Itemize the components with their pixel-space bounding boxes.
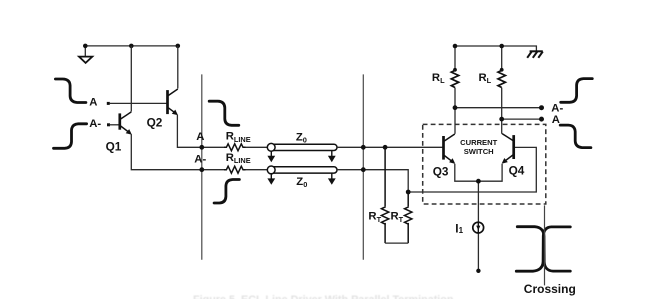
transistor Q2 bbox=[168, 89, 179, 115]
dashed box current switch bbox=[423, 124, 546, 204]
resistor RLINE2 bbox=[224, 166, 246, 173]
node A- on line 1 bbox=[199, 167, 204, 172]
squiggle output upper bbox=[561, 79, 593, 103]
arrow below Z0 lower right bbox=[328, 173, 336, 185]
wire input A- to Q1 base bbox=[109, 124, 119, 126]
resistor RLINE1 bbox=[224, 144, 246, 151]
svg-text:Q4: Q4 bbox=[509, 164, 525, 178]
node A on line 1 bbox=[199, 145, 204, 150]
chassis ground right bbox=[527, 51, 543, 58]
node bottom terminal of I1 bbox=[476, 269, 480, 273]
wire Q1 collector vertical bbox=[130, 46, 132, 112]
wire Q3 emitter to common bbox=[455, 164, 479, 181]
wire output A- row bbox=[455, 107, 542, 109]
wire RL1 top vertical bbox=[454, 46, 456, 70]
wire Q2 collector vertical bbox=[177, 46, 179, 89]
wire RLINE1 to Z0 line 1 bbox=[246, 146, 268, 148]
svg-text:Crossing: Crossing bbox=[524, 282, 576, 296]
node top-rail junction 2 bbox=[129, 44, 134, 49]
svg-text:A-: A- bbox=[551, 103, 563, 115]
svg-text:RL: RL bbox=[479, 72, 492, 85]
svg-text:RLINE: RLINE bbox=[226, 152, 251, 165]
node input A- terminal bbox=[107, 123, 110, 126]
wire RLINE2 to Z0 line 2 bbox=[246, 169, 268, 171]
resistor RT2 bbox=[405, 192, 412, 243]
wire Z0 upper output to Q3 base bbox=[337, 146, 443, 148]
node top-right rail junction 1 bbox=[453, 44, 458, 49]
wire RL2 bottom to Q4 collector bbox=[501, 88, 503, 134]
resistor RL2 bbox=[498, 70, 505, 87]
wire current source to bottom terminal bbox=[477, 233, 479, 271]
current source I1 bbox=[473, 222, 484, 233]
node RL2 top bbox=[500, 68, 504, 72]
wire top-right rail bbox=[455, 46, 536, 51]
wire Q2 emitter down and right (A signal) bbox=[177, 115, 224, 148]
node line2 crossing wire1 bbox=[361, 145, 366, 150]
node output A- tap bbox=[453, 105, 458, 110]
wire Q1 emitter down and right (A- signal) bbox=[131, 134, 224, 170]
wire top-left rail bbox=[85, 45, 178, 47]
squiggle output lower bbox=[560, 125, 591, 148]
node RT1 tap bbox=[383, 145, 388, 150]
svg-text:A: A bbox=[552, 114, 560, 126]
crossing waveform bbox=[516, 227, 570, 272]
wire RL1 bottom to Q3 collector bbox=[454, 88, 456, 134]
wire crossing vertical marker bbox=[544, 205, 546, 285]
svg-text:I1: I1 bbox=[455, 221, 463, 235]
node output A end bbox=[539, 117, 544, 122]
node output A tap bbox=[499, 117, 504, 122]
svg-text:RT: RT bbox=[368, 211, 381, 224]
svg-text:RLINE: RLINE bbox=[226, 131, 251, 144]
arrow below Z0 lower left bbox=[267, 173, 275, 185]
svg-text:Q1: Q1 bbox=[106, 139, 122, 153]
svg-text:Q3: Q3 bbox=[433, 165, 449, 179]
node RT2 tap bbox=[406, 190, 411, 195]
arrow below Z0 upper left bbox=[267, 151, 275, 163]
wire Q4 emitter to common bbox=[478, 164, 502, 181]
node output A- end bbox=[539, 105, 544, 110]
wire RT bottom bus bbox=[385, 242, 408, 244]
svg-text:RL: RL bbox=[432, 72, 445, 85]
transmission line Z0 upper bbox=[267, 143, 337, 151]
svg-text:SWITCH: SWITCH bbox=[464, 147, 494, 156]
svg-text:Z0: Z0 bbox=[296, 176, 307, 189]
svg-text:Q2: Q2 bbox=[147, 116, 163, 130]
squiggle above RLINE bbox=[209, 101, 239, 125]
wire output A row bbox=[502, 118, 542, 120]
wire input A to Q2 base bbox=[109, 102, 167, 104]
transistor Q4 bbox=[502, 134, 514, 164]
resistor RL1 bbox=[451, 70, 458, 87]
squiggle input A bbox=[55, 79, 86, 103]
transistor Q1 bbox=[120, 112, 132, 135]
svg-text:A: A bbox=[89, 97, 97, 109]
node line2 crossing wire2 bbox=[361, 167, 366, 172]
wire long vertical line 2 bbox=[362, 74, 364, 259]
wire common emitter down to current source bbox=[477, 181, 479, 222]
node top-rail junction 1 bbox=[83, 44, 88, 49]
ground bbox=[79, 46, 92, 63]
transmission line Z0 lower bbox=[267, 166, 337, 174]
svg-text:CURRENT: CURRENT bbox=[460, 138, 497, 147]
node common emitter bbox=[476, 179, 481, 184]
arrow below Z0 upper right bbox=[328, 151, 336, 163]
svg-text:A: A bbox=[196, 131, 204, 143]
wire Z0 lower output down and around to Q4 base bbox=[337, 147, 536, 192]
squiggle input A- bbox=[54, 124, 87, 149]
node input A terminal bbox=[107, 102, 110, 105]
wire RL2 top vertical bbox=[501, 46, 503, 70]
svg-text:A-: A- bbox=[194, 154, 206, 166]
transistor Q3 bbox=[444, 134, 456, 164]
svg-text:A-: A- bbox=[89, 118, 101, 130]
node RL1 top bbox=[453, 68, 457, 72]
node top-right rail junction 2 bbox=[499, 44, 504, 49]
svg-text:Figure 5. ECL Line Driver With: Figure 5. ECL Line Driver With Parallel … bbox=[193, 294, 454, 299]
squiggle below RLINE bbox=[214, 180, 239, 204]
svg-text:Z0: Z0 bbox=[296, 131, 307, 144]
resistor RT1 bbox=[381, 147, 388, 243]
wire long vertical line 1 bbox=[201, 74, 203, 259]
node top-rail junction 3 bbox=[176, 44, 181, 49]
svg-text:RT: RT bbox=[391, 211, 404, 224]
